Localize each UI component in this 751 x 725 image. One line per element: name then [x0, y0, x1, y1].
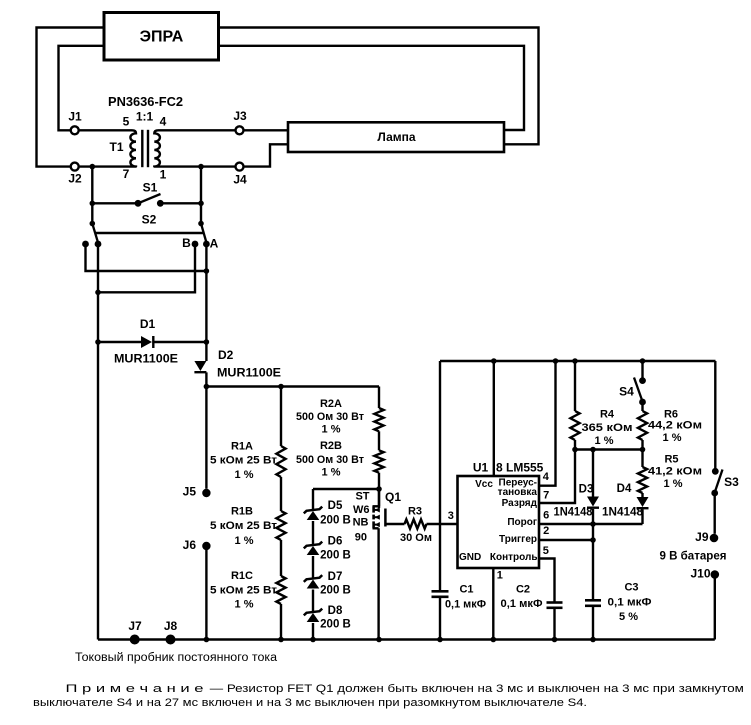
- transformer T1 right winding: [154, 130, 235, 166]
- lamp box: [288, 122, 504, 152]
- svg-text:J3: J3: [233, 109, 247, 123]
- wire D5-D6: [312, 521, 314, 545]
- S2 common left: [90, 221, 96, 227]
- resistor R1A symbol: [276, 446, 285, 477]
- svg-text:D3: D3: [579, 484, 594, 496]
- zener D5 symbol: [304, 507, 322, 514]
- connector J3: [236, 126, 244, 134]
- Q1 channel seg1: [372, 506, 375, 512]
- svg-text:41,2 кОм: 41,2 кОм: [648, 465, 702, 477]
- svg-text:GND: GND: [459, 552, 481, 563]
- S2 lever right: [201, 224, 206, 243]
- wire zener chain tap: [313, 488, 379, 490]
- terminal J10: [711, 570, 720, 579]
- capacitor C1 symbol: [432, 590, 449, 593]
- svg-text:0,1 мкФ: 0,1 мкФ: [445, 598, 486, 610]
- wire left column to bottom rail: [97, 342, 99, 640]
- transformer T1 left winding: [79, 130, 136, 166]
- svg-text:0,1 мкФ: 0,1 мкФ: [501, 598, 543, 610]
- svg-text:S4: S4: [619, 385, 634, 399]
- wire Q1 source to rail: [377, 528, 379, 639]
- resistor R2A symbol: [374, 408, 383, 431]
- terminal J7: [130, 635, 140, 645]
- S2 common right: [198, 221, 204, 227]
- wire J3 to lamp: [244, 129, 288, 131]
- svg-text:J1: J1: [68, 110, 82, 124]
- wire pin6: [539, 523, 643, 525]
- node D1 left: [95, 339, 101, 345]
- resistor R2B symbol: [374, 450, 383, 472]
- svg-text:C1: C1: [459, 583, 473, 595]
- svg-text:7: 7: [123, 167, 130, 181]
- svg-text:MUR1100E: MUR1100E: [114, 354, 178, 366]
- svg-text:J9: J9: [695, 530, 709, 544]
- wire J6 to rail: [205, 546, 207, 640]
- zener D8 symbol: [304, 609, 322, 616]
- node D3 top: [590, 447, 596, 453]
- wire left-inner contact down: [97, 244, 99, 342]
- zener D7 symbol: [304, 575, 322, 582]
- svg-text:C2: C2: [516, 583, 530, 595]
- wire left-outer contact to A column: [86, 244, 207, 271]
- wire rail to S4: [641, 361, 643, 381]
- resistor R4 symbol: [570, 411, 579, 440]
- wire S1 right: [163, 202, 201, 204]
- resistor R6 symbol: [638, 411, 647, 440]
- svg-text:ЭПРА: ЭПРА: [140, 29, 184, 46]
- node rail Q1 source: [376, 637, 382, 643]
- terminal J5: [202, 489, 210, 497]
- node rail pin1: [491, 637, 497, 643]
- node A contact: [203, 241, 210, 248]
- wire R5 to D4: [641, 493, 643, 497]
- op-amp U1 LM555 box: [458, 476, 540, 568]
- svg-text:365 кОм: 365 кОм: [582, 422, 633, 434]
- wire C3 to rail: [592, 606, 594, 640]
- Q1 channel seg2: [372, 515, 375, 520]
- S4 contact bottom: [639, 399, 646, 406]
- svg-text:J8: J8: [164, 619, 178, 633]
- svg-text:D7: D7: [328, 571, 343, 583]
- wire rail to R4: [574, 361, 576, 411]
- wire J4 to lamp: [244, 144, 288, 166]
- svg-text:R1B: R1B: [231, 505, 253, 517]
- svg-text:ST: ST: [355, 490, 369, 502]
- wire top rail to R2A: [206, 385, 379, 387]
- wire D1 cathode to A column: [154, 341, 206, 343]
- node rail D8: [310, 637, 316, 643]
- wire D6-D7: [312, 556, 314, 579]
- S2 lever left: [92, 224, 98, 243]
- S3 lever: [715, 470, 723, 493]
- svg-text:R1A: R1A: [231, 440, 253, 452]
- wire pin5 to C2: [539, 559, 555, 603]
- node rail R1C: [278, 637, 284, 643]
- wire pin4 to rail: [539, 361, 556, 486]
- svg-text:П р и м е ч а н и е: П р и м е ч а н и е: [66, 683, 204, 695]
- diode D2 symbol: [194, 361, 206, 371]
- wire to R1A: [280, 387, 282, 447]
- svg-text:2: 2: [543, 525, 549, 537]
- resistor R3 symbol: [405, 519, 427, 528]
- svg-text:1N4148: 1N4148: [602, 507, 644, 519]
- svg-text:1 %: 1 %: [235, 598, 254, 610]
- node pin8 rail: [491, 358, 497, 364]
- wire R2A-R2B: [378, 431, 380, 450]
- wire A column down: [205, 244, 207, 361]
- S1 contact right: [157, 200, 164, 207]
- node B join: [95, 290, 101, 296]
- wire C1 to rail: [439, 597, 441, 640]
- Q1 drain jog: [373, 505, 380, 507]
- Q1 tick3: [374, 524, 380, 526]
- svg-text:S3: S3: [724, 475, 739, 489]
- svg-text:5 кОм 25 Вт: 5 кОм 25 Вт: [210, 584, 278, 596]
- node D2 rail: [204, 384, 210, 390]
- zener D6 symbol: [304, 542, 322, 549]
- svg-text:J6: J6: [183, 538, 197, 552]
- svg-text:Q1: Q1: [385, 490, 401, 504]
- wire S3 to J9: [714, 493, 716, 534]
- wire pin2: [539, 539, 593, 541]
- svg-text:S2: S2: [142, 213, 157, 227]
- wire R3 to pin3: [427, 523, 458, 525]
- svg-text:1 %: 1 %: [322, 466, 341, 478]
- node D1 right: [204, 339, 210, 345]
- node R4 rail: [572, 358, 578, 364]
- node J2-T1: [90, 164, 96, 170]
- wire C2 to rail: [553, 608, 555, 640]
- S1 contact left: [135, 200, 142, 207]
- svg-text:1: 1: [497, 569, 503, 581]
- svg-text:J2: J2: [68, 172, 82, 186]
- node pin4 rail: [553, 358, 559, 364]
- wire EPRA-right-top to lamp: [219, 28, 539, 145]
- svg-text:5 кОм 25 Вт: 5 кОм 25 Вт: [210, 454, 278, 466]
- svg-text:1:1: 1:1: [136, 110, 154, 124]
- svg-text:PN3636-FC2: PN3636-FC2: [108, 95, 183, 109]
- wire R6 to node: [641, 440, 643, 450]
- wire EPRA-left-top to J2: [37, 28, 105, 167]
- wire S4 to R6: [641, 402, 643, 411]
- svg-text:5 кОм 25 Вт: 5 кОм 25 Вт: [210, 520, 278, 532]
- Q1 gate bar: [384, 509, 387, 527]
- svg-text:J4: J4: [233, 173, 247, 187]
- svg-text:0,1 мкФ: 0,1 мкФ: [608, 596, 652, 608]
- wire D4 down: [641, 509, 643, 524]
- svg-text:Контроль: Контроль: [490, 552, 538, 563]
- resistor R1B symbol: [276, 511, 285, 540]
- wire to D5: [312, 489, 314, 510]
- svg-text:3: 3: [448, 510, 454, 522]
- svg-text:200 В: 200 В: [320, 515, 351, 527]
- S2 coupling bar: [95, 232, 204, 234]
- svg-text:1 %: 1 %: [235, 535, 254, 547]
- wire gate to R3: [385, 523, 404, 525]
- svg-text:U1: U1: [473, 461, 489, 475]
- resistor R1C symbol: [276, 576, 285, 604]
- wire R1C to rail: [280, 604, 282, 640]
- svg-text:5: 5: [543, 545, 549, 557]
- ballast box EPRA: [104, 13, 219, 61]
- wire right column: [200, 167, 202, 224]
- wire EPRA-left-bottom to J1: [59, 46, 105, 131]
- wire node to D3: [592, 450, 594, 497]
- svg-text:Vcc: Vcc: [475, 479, 493, 490]
- svg-text:1: 1: [160, 168, 167, 182]
- svg-text:500 Ом 30 Вт: 500 Ом 30 Вт: [296, 411, 365, 423]
- svg-text:D2: D2: [218, 348, 234, 362]
- wire D3 to C3: [592, 509, 594, 600]
- node rail C2: [552, 637, 558, 643]
- svg-text:MUR1100E: MUR1100E: [217, 368, 281, 380]
- svg-text:J10: J10: [690, 567, 710, 581]
- svg-text:R2B: R2B: [320, 440, 342, 452]
- S3 contact top: [712, 468, 719, 475]
- svg-text:4: 4: [543, 471, 550, 483]
- terminal J8: [166, 635, 176, 645]
- wire R2B to Q1 drain: [378, 473, 380, 508]
- svg-text:J7: J7: [128, 619, 142, 633]
- resistor R5 symbol: [638, 467, 647, 493]
- S4 lever: [634, 378, 643, 402]
- diode D1 symbol: [141, 336, 152, 348]
- svg-text:Разряд: Разряд: [502, 498, 538, 509]
- svg-text:D1: D1: [140, 317, 156, 331]
- node R6-R5: [640, 447, 646, 453]
- node T1-pin1: [198, 164, 204, 170]
- svg-text:1 %: 1 %: [663, 432, 682, 444]
- connector J4: [236, 163, 244, 171]
- svg-text:200 В: 200 В: [320, 619, 351, 631]
- wire left column: [91, 167, 93, 224]
- node S1 left tap: [90, 201, 96, 207]
- svg-text:NB: NB: [353, 516, 369, 528]
- svg-text:выключателе S4 и на 27 мс вклю: выключателе S4 и на 27 мс включен и на 3…: [33, 697, 587, 709]
- wire J10 to bottom rail: [714, 575, 716, 640]
- wire top rail: [440, 360, 716, 362]
- wire pin 8 Vcc: [493, 361, 495, 476]
- svg-text:R4: R4: [600, 408, 615, 420]
- wire: [147, 130, 149, 167]
- node R4 bottom: [572, 447, 578, 453]
- svg-text:D4: D4: [617, 483, 632, 495]
- terminal J9: [710, 534, 719, 543]
- capacitor C2 symbol: [547, 601, 563, 604]
- svg-text:R1C: R1C: [231, 570, 253, 582]
- svg-text:5: 5: [123, 115, 130, 129]
- node R1A tap: [278, 384, 284, 390]
- S2 contact left-inner: [95, 241, 102, 248]
- wire node to R5: [641, 450, 643, 468]
- svg-text:R5: R5: [664, 453, 678, 465]
- svg-text:6: 6: [543, 509, 549, 521]
- svg-text:1 %: 1 %: [235, 469, 254, 481]
- wire pin1 to rail: [492, 568, 494, 640]
- wire rail to S3: [714, 361, 716, 471]
- svg-text:J5: J5: [183, 485, 197, 499]
- node rail C1: [437, 637, 443, 643]
- wire rail to C1: [439, 361, 441, 591]
- wire D7-D8: [312, 590, 314, 613]
- svg-text:S1: S1: [143, 181, 158, 195]
- node S1 right tap: [198, 201, 204, 207]
- svg-text:тановка: тановка: [498, 487, 538, 498]
- wire R1A-R1B: [280, 477, 282, 511]
- wire R1B-R1C: [280, 540, 282, 576]
- node pin2 junction: [590, 537, 596, 543]
- svg-text:8 LM555: 8 LM555: [496, 461, 544, 475]
- node on A column: [204, 268, 210, 274]
- connector J1: [71, 126, 79, 134]
- S1 lever: [138, 194, 161, 203]
- svg-text:— Резистор FET Q1 должен быть: — Резистор FET Q1 должен быть включен на…: [210, 683, 744, 695]
- Q1 drain lead: [378, 489, 380, 506]
- connector J2: [71, 163, 79, 171]
- node pin6 junction: [590, 521, 596, 527]
- svg-text:200 В: 200 В: [320, 585, 351, 597]
- wire B to left column: [98, 244, 195, 292]
- svg-text:W6: W6: [353, 504, 370, 516]
- svg-text:90: 90: [355, 531, 367, 543]
- wire S1 left: [92, 202, 135, 204]
- svg-text:D8: D8: [328, 605, 343, 617]
- svg-text:A: A: [210, 237, 219, 251]
- node R2B-zeners-Q1: [376, 486, 382, 492]
- Q1 source jog: [373, 527, 379, 529]
- svg-text:5 %: 5 %: [619, 611, 638, 623]
- wire bottom rail: [98, 638, 715, 640]
- svg-text:Триггер: Триггер: [499, 534, 537, 545]
- svg-text:1 %: 1 %: [595, 435, 614, 447]
- svg-text:Токовый пробник постоянного то: Токовый пробник постоянного тока: [75, 652, 278, 664]
- node rail J6: [204, 637, 210, 643]
- terminal J6: [202, 542, 210, 550]
- diode D3 symbol: [587, 497, 599, 507]
- svg-text:R2A: R2A: [320, 398, 342, 410]
- wire R4 to node: [574, 440, 576, 450]
- svg-text:200 В: 200 В: [320, 550, 351, 562]
- Q1 channel seg3: [372, 521, 375, 528]
- svg-text:T1: T1: [109, 140, 123, 154]
- svg-text:1 %: 1 %: [322, 423, 341, 435]
- S4 contact top: [639, 377, 646, 384]
- svg-text:D5: D5: [328, 500, 343, 512]
- svg-text:R3: R3: [408, 505, 422, 517]
- wire rail to R2A: [378, 387, 380, 409]
- wire EPRA-right-bottom to lamp: [219, 46, 525, 130]
- svg-text:Лампа: Лампа: [377, 130, 416, 144]
- S3 contact bottom: [711, 490, 718, 497]
- wire D8 to rail: [312, 623, 314, 640]
- capacitor C3 symbol: [585, 599, 601, 602]
- svg-text:1N4148: 1N4148: [554, 507, 594, 519]
- wire pin7 to R4: [539, 450, 575, 504]
- svg-text:D6: D6: [328, 536, 343, 548]
- svg-text:9 В батарея: 9 В батарея: [660, 551, 727, 563]
- svg-text:B: B: [182, 236, 191, 250]
- Q1 tick2: [374, 516, 380, 518]
- diode D4 symbol: [637, 497, 649, 507]
- Q1 tick1: [374, 509, 380, 511]
- wire: [141, 130, 143, 167]
- svg-text:30 Ом: 30 Ом: [400, 532, 432, 544]
- node S4 rail: [640, 358, 646, 364]
- svg-text:C3: C3: [624, 581, 638, 593]
- S2 contact left-outer: [82, 241, 89, 248]
- node B contact: [192, 241, 199, 248]
- svg-text:500 Ом 30 Вт: 500 Ом 30 Вт: [296, 454, 365, 466]
- wire R4-R6 node link: [575, 448, 643, 450]
- node rail C3: [590, 637, 596, 643]
- svg-text:1 %: 1 %: [664, 478, 683, 490]
- wire to D1 anode: [98, 341, 141, 343]
- wire D2 to J5: [205, 372, 207, 488]
- svg-text:7: 7: [543, 489, 549, 501]
- svg-text:Порог: Порог: [507, 517, 537, 528]
- svg-text:44,2 кОм: 44,2 кОм: [648, 419, 702, 431]
- svg-text:4: 4: [160, 115, 167, 129]
